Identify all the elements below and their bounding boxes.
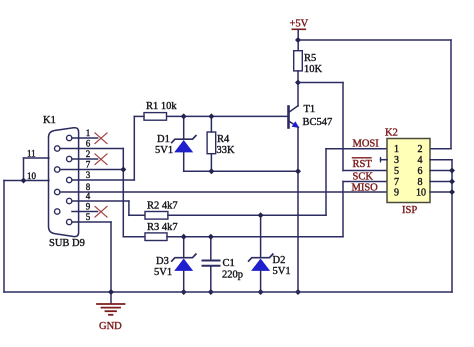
svg-text:K2: K2 — [385, 128, 398, 139]
wire T1 base rail — [167, 115, 289, 117]
diode D1 (zener 5V1) — [155, 116, 196, 171]
svg-text:9: 9 — [394, 188, 399, 199]
svg-text:1: 1 — [86, 128, 91, 138]
pin 11 label and stub — [24, 149, 49, 159]
node emitter rail junction — [295, 168, 301, 174]
resistor R2 — [145, 201, 178, 220]
svg-text:R2 4k7: R2 4k7 — [147, 201, 178, 212]
resistor R1 — [144, 101, 177, 120]
svg-text:MOSI: MOSI — [353, 138, 380, 149]
svg-text:11: 11 — [27, 149, 36, 159]
transistor Q1/T1 BC547 — [289, 104, 333, 128]
wire ground rail — [4, 291, 452, 293]
svg-text:R3 4k7: R3 4k7 — [147, 222, 178, 233]
node C1 top junction — [208, 234, 214, 240]
svg-text:3: 3 — [86, 170, 91, 180]
svg-text:6: 6 — [418, 166, 423, 177]
wire K1 pin4 to R2 — [72, 201, 145, 215]
wire T1 emitter to ground rail — [297, 127, 299, 292]
svg-text:R1 10k: R1 10k — [146, 101, 177, 112]
wire R5 bottom to T1 collector — [297, 71, 299, 106]
svg-text:5V1: 5V1 — [154, 267, 172, 278]
svg-text:+5V: +5V — [290, 19, 309, 30]
svg-text:4: 4 — [418, 155, 423, 166]
wire K2 pin6 to ground bus — [430, 170, 452, 172]
wire K1 pin7 joins pin6 — [60, 169, 123, 171]
node pins 10/11 junction — [21, 178, 27, 184]
wire K2 pin4 to ground bus — [430, 160, 452, 292]
svg-text:9: 9 — [86, 202, 91, 212]
wire R2 to K2 pin1 (MOSI net) — [168, 149, 387, 216]
wire K1 pin9 stub — [72, 211, 98, 213]
wire K2 pin8 to ground bus — [430, 181, 452, 183]
svg-text:R4: R4 — [217, 134, 230, 145]
wire +5V rail to K2 pin2 — [298, 40, 451, 149]
node pin6/pin7 junction — [120, 167, 126, 173]
svg-text:5: 5 — [86, 212, 91, 222]
net label RST (overline) — [353, 158, 373, 170]
wire pins 10/11 to ground — [4, 158, 24, 292]
svg-text:7: 7 — [86, 160, 91, 170]
node R4 top junction — [208, 113, 214, 119]
node D1 top junction — [181, 113, 187, 119]
svg-text:D3: D3 — [156, 256, 169, 267]
svg-text:R5: R5 — [304, 53, 316, 64]
node D3 top junction — [181, 234, 187, 240]
node D2 top junction — [258, 212, 264, 218]
pin number labels K1 — [86, 128, 91, 222]
svg-text:3: 3 — [394, 155, 399, 166]
node D3 bottom junction — [181, 289, 187, 295]
node pin6 junction — [449, 168, 455, 174]
svg-text:7: 7 — [394, 177, 399, 188]
wire R1 left to K1 pin3 — [134, 116, 144, 180]
node D2 bottom junction — [258, 289, 264, 295]
svg-text:C1: C1 — [223, 258, 235, 269]
node collector junction — [295, 80, 301, 86]
svg-text:2: 2 — [418, 144, 423, 155]
wire K1 pin6 to R3 (via vertical) — [60, 149, 145, 237]
node C1 bottom junction — [208, 289, 214, 295]
connector K1 SUB D9 body — [43, 115, 85, 249]
resistor R3 — [145, 222, 178, 241]
diode D2 (zener 5V1) — [249, 215, 291, 292]
svg-text:5V1: 5V1 — [273, 266, 291, 277]
svg-text:5: 5 — [394, 166, 399, 177]
svg-text:5V1: 5V1 — [155, 145, 173, 156]
capacitor C1 — [203, 237, 244, 292]
svg-text:D1: D1 — [157, 134, 170, 145]
wire K2 pin3 stub — [381, 159, 388, 161]
node GND stem junction — [108, 289, 114, 295]
resistor R5 — [294, 51, 323, 75]
diode D3 (zener 5V1) — [154, 237, 196, 292]
pin circles K1 right column (1-5) — [67, 135, 72, 224]
ground GND symbol — [97, 304, 125, 332]
wire collector node to K2 pin5 (RST) — [298, 83, 387, 171]
wire K1 pin3 to R1 — [72, 179, 134, 181]
svg-text:6: 6 — [86, 139, 91, 149]
svg-text:10: 10 — [27, 171, 37, 181]
connector K2 ISP header — [385, 128, 430, 217]
pin numbers K2 — [394, 144, 426, 198]
svg-text:220p: 220p — [222, 270, 243, 281]
svg-text:2: 2 — [86, 149, 91, 159]
node pin10 junction — [449, 189, 455, 195]
svg-text:GND: GND — [99, 321, 122, 332]
svg-text:8: 8 — [418, 177, 423, 188]
pin circles K1 left column (6-9) — [55, 146, 60, 214]
wire ground-side rail D1/R4 to emitter — [184, 170, 298, 172]
svg-text:ISP: ISP — [402, 205, 417, 216]
pin 10 label and stub — [24, 171, 49, 181]
no-connect X pin9 — [95, 207, 107, 218]
wire K1 pin2 stub — [72, 158, 98, 160]
svg-text:33K: 33K — [217, 145, 236, 156]
svg-text:RST: RST — [353, 159, 373, 170]
svg-text:1: 1 — [394, 144, 399, 155]
wire K1 pin1 stub — [72, 137, 98, 139]
svg-text:SCK: SCK — [353, 172, 374, 183]
node +5V junction — [295, 37, 301, 43]
svg-text:MISO: MISO — [352, 182, 379, 193]
node R4 bottom junction — [208, 168, 214, 174]
wire K1 pin8 to K2 pin9 (MISO net) — [60, 191, 387, 193]
power +5V — [290, 19, 309, 51]
no-connect X pin1 — [95, 133, 107, 144]
wire K2 pin10 to ground bus — [430, 191, 452, 193]
node emitter bottom junction — [295, 289, 301, 295]
wire K1 pin5 to ground — [72, 222, 111, 304]
svg-text:D2: D2 — [273, 255, 286, 266]
svg-text:10: 10 — [416, 188, 426, 199]
node pin8 junction — [449, 179, 455, 185]
resistor R4 — [207, 116, 235, 171]
svg-text:T1: T1 — [304, 104, 316, 115]
wire R3 to K2 pin7 (SCK net) — [167, 182, 387, 237]
no-connect X pin2 — [95, 154, 107, 165]
svg-text:SUB D9: SUB D9 — [49, 238, 85, 249]
svg-text:K1: K1 — [43, 115, 56, 126]
svg-text:10K: 10K — [304, 64, 323, 75]
svg-text:BC547: BC547 — [303, 117, 333, 128]
